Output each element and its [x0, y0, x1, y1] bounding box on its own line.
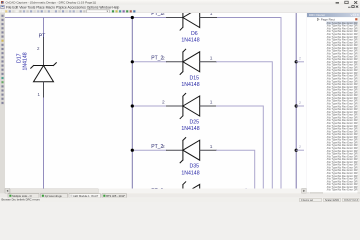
svg-text:BTS 325 - 2011*: BTS 325 - 2011* [106, 194, 125, 198]
right panel [307, 17, 360, 197]
svg-text:2: 2 [299, 101, 301, 105]
wire: row net D45 left segment [132, 193, 166, 195]
wire: stub right of bus [296, 61, 303, 63]
wire: row net D25 left segment [132, 105, 166, 107]
svg-text:Scale=129%: Scale=129% [325, 199, 340, 202]
panel horizontal scrollbar [307, 192, 360, 196]
tab hpf [41, 194, 68, 198]
diode D45 (zener symbol, cathode left) [180, 182, 200, 207]
panel list rows [327, 21, 360, 192]
pin 2 of D17 [43, 38, 45, 66]
diode D15 (zener symbol, cathode left) [180, 49, 200, 74]
pin 1 of D15 [200, 61, 217, 63]
wire: stub right of bus [296, 149, 303, 151]
pin 1 of D35 [200, 149, 217, 151]
svg-text:D35: D35 [190, 164, 200, 170]
diode D6 (zener symbol, cathode left) [180, 5, 200, 30]
junction dot on left bus at row D35 [131, 149, 134, 152]
diode D35 (zener symbol, cathode left) [180, 138, 200, 163]
schematic canvas background [5, 13, 307, 189]
mdi window buttons [348, 6, 358, 8]
tab Multiple [8, 194, 39, 198]
panel title bar [307, 13, 360, 17]
svg-text:1N4148: 1N4148 [181, 38, 199, 44]
svg-text:OrCAD Capture - [Schematic Des: OrCAD Capture - [Schematic Design - DRC … [6, 1, 97, 5]
wire: stub right of bus [296, 105, 303, 107]
wire: row net D15 right segment + drop [217, 62, 273, 189]
svg-text:Page Rect: Page Rect [321, 18, 335, 22]
svg-text:1: 1 [210, 144, 213, 150]
junction dot on left bus at row D25 [131, 104, 134, 107]
wire: top net PT_2 horizontal y=17.5 [5, 17, 167, 19]
junction dot on right bus at row D35 [295, 149, 298, 152]
left tool palette [0, 13, 5, 193]
panel tree root [317, 18, 319, 20]
wire: row net D25 right segment + drop [217, 106, 264, 189]
pin 1 of D17 [43, 82, 45, 98]
pin 2 of D35 [167, 149, 183, 151]
diode D25 (zener symbol, cathode left) [180, 93, 200, 118]
svg-text:1N4148: 1N4148 [181, 170, 199, 176]
junction dot on left bus at row D45 [131, 193, 134, 196]
wire: left bus vertical x=132.3 [131, 18, 133, 189]
svg-text:/No Type/No Rev Error DRC Chck: /No Type/No Rev Error DRC Chck [327, 188, 360, 192]
tab BTS [102, 194, 127, 198]
svg-text:0 items sel: 0 items sel [301, 199, 313, 202]
wire: row net D35 right segment + drop [217, 150, 255, 188]
toolbar icons [1, 10, 86, 13]
wire: row net D15 left segment [132, 61, 166, 63]
panel right scroll strip [358, 17, 360, 192]
wire: right bus vertical x=296.2 [295, 13, 297, 189]
junction dot on left bus at row D6 [131, 16, 134, 19]
svg-text:hpf wout drugs: hpf wout drugs [45, 194, 63, 198]
svg-text:2: 2 [162, 56, 165, 62]
svg-text:1: 1 [210, 100, 213, 106]
svg-text:2: 2 [299, 57, 301, 61]
status bar [0, 198, 360, 202]
svg-text:LED Module 1: IN A P: LED Module 1: IN A P [73, 194, 98, 198]
svg-text:D6: D6 [191, 31, 198, 37]
pin 2 of D15 [167, 61, 183, 63]
wire: zener bottom net [43, 98, 45, 189]
panel selected row [326, 22, 357, 25]
canvas horizontal scrollbar [5, 189, 307, 194]
svg-text:1N4148: 1N4148 [181, 82, 199, 88]
svg-text:D15: D15 [190, 75, 200, 81]
svg-text:PT: PT [39, 33, 46, 39]
pin 2 of D45 [167, 193, 183, 195]
title window buttons [336, 1, 358, 4]
svg-text:D25: D25 [190, 120, 200, 126]
wire: zener top net x=43.5 [43, 18, 45, 38]
svg-text:1N4148: 1N4148 [181, 126, 199, 132]
toolbar combo box [87, 10, 110, 13]
svg-text:X=6.9 Y=2.3: X=6.9 Y=2.3 [344, 199, 358, 202]
menu bar [0, 5, 360, 10]
wire: row net D45 right segment + drop [217, 189, 247, 195]
bottom tab row [0, 193, 360, 197]
svg-text:Browse Drc beliefs DRC errors: Browse Drc beliefs DRC errors [2, 198, 41, 202]
wire: row net D35 left segment [132, 149, 166, 151]
svg-text:1N4148: 1N4148 [23, 52, 29, 70]
toolbar [0, 10, 360, 14]
title bar [0, 0, 360, 5]
svg-text:2: 2 [299, 145, 301, 149]
pin 2 of D25 [167, 105, 183, 107]
junction dot on right bus at row D25 [295, 104, 298, 107]
pin 1 of D25 [200, 105, 217, 107]
pin 2 of D6 [167, 17, 183, 19]
tab LED [69, 194, 101, 198]
diode D17 (vertical zener, cathode up) [31, 63, 57, 82]
toolbar right icon group [112, 10, 136, 13]
svg-text:1: 1 [210, 56, 213, 62]
svg-text:2: 2 [162, 100, 165, 106]
svg-text:2: 2 [162, 144, 165, 150]
svg-text:File Edit View Tools Place Mac: File Edit View Tools Place Macro PSpice … [6, 5, 119, 9]
gap strip between canvas and panel [307, 13, 311, 197]
pin 1 of D6 [200, 17, 217, 19]
junction dot on left bus at row D15 [131, 60, 134, 63]
junction dot on right bus at row D15 [295, 60, 298, 63]
pin 1 of D45 [200, 193, 217, 195]
wire: D6 bracket drop [280, 18, 282, 189]
